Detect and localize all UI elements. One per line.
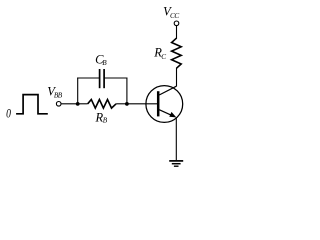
label VCC [163, 4, 179, 20]
svg-text:CC: CC [170, 12, 179, 20]
terminal VBB [56, 102, 61, 107]
terminal VCC [174, 21, 179, 26]
wire VBB to node A [61, 103, 78, 105]
svg-text:B: B [103, 117, 108, 125]
label RB [95, 110, 108, 124]
wire node A up to CB [77, 78, 79, 104]
svg-text:B: B [102, 59, 107, 67]
label CB [95, 53, 107, 68]
node A junction dot [76, 102, 80, 106]
transistor Q1 circle [146, 86, 183, 123]
wire node A to RB [78, 103, 88, 105]
wire node B to base [127, 103, 157, 105]
wire CB right lead [104, 77, 127, 79]
svg-text:BB: BB [54, 91, 63, 99]
wire emitter to ground [175, 117, 177, 160]
collector lead [159, 86, 176, 95]
wire node B up to CB [126, 78, 128, 104]
node B junction dot [125, 102, 129, 106]
capacitor CB plates [100, 69, 105, 88]
pulse waveform [16, 95, 48, 114]
wire CB left lead [77, 77, 99, 79]
wire RB to node B [116, 103, 127, 105]
transistor base bar [157, 91, 160, 116]
ground [169, 161, 183, 166]
label RC [153, 45, 166, 61]
resistor RB [88, 100, 116, 109]
resistor RC [172, 38, 182, 68]
svg-text:C: C [161, 53, 166, 61]
wire VCC to RC [176, 26, 178, 39]
wire RC to collector [176, 68, 178, 86]
emitter lead with arrow [159, 110, 176, 118]
label VBB [47, 84, 63, 99]
svg-text:0: 0 [6, 106, 11, 120]
